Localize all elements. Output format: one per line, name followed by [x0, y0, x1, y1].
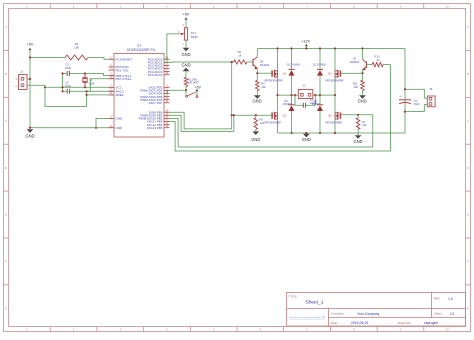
svg-text:C: C	[467, 119, 469, 123]
wire Q4 source to gnd rail	[334, 119, 336, 133]
wire P1 pin14 to control vertical	[170, 112, 232, 129]
title block	[287, 292, 466, 326]
svg-text:PC6 RESET: PC6 RESET	[116, 57, 133, 61]
wire GND rail to U1 pin22	[30, 127, 114, 129]
wire +5V rail to R1	[29, 51, 31, 58]
svg-text:Q3: Q3	[328, 72, 332, 76]
svg-text:D: D	[467, 166, 469, 170]
svg-text:F: F	[467, 260, 469, 264]
svg-text:10k: 10k	[261, 85, 266, 89]
node gnd rail corner	[29, 127, 31, 129]
node AVCC junction	[86, 90, 88, 92]
wire bridge ground rail	[278, 132, 406, 134]
node J1 pin1 junction	[29, 78, 31, 80]
wire C1 right to XTAL1	[69, 73, 85, 75]
wire +12V rail down right side	[404, 49, 406, 134]
node Q1 drain rail	[276, 47, 278, 49]
svg-text:zaprogee: zaprogee	[424, 321, 438, 325]
svg-text:TITLE:: TITLE:	[289, 294, 298, 298]
svg-text:Date:: Date:	[331, 321, 338, 325]
node C4 top	[404, 88, 406, 90]
ground flag R5	[255, 129, 257, 131]
node GND pins join	[95, 127, 97, 129]
ground flag R11	[362, 91, 364, 96]
svg-text:GND: GND	[116, 126, 124, 130]
node Q4 column gnd rail	[334, 132, 336, 134]
svg-text:G: G	[5, 306, 7, 310]
ground flag R7	[357, 129, 359, 135]
svg-text:Sheet_1: Sheet_1	[306, 300, 324, 306]
node motor-left column	[276, 94, 278, 96]
svg-text:2N3904: 2N3904	[260, 63, 270, 67]
svg-text:IRF530NPBF: IRF530NPBF	[265, 120, 282, 124]
svg-text:GND: GND	[354, 139, 363, 144]
svg-text:GND: GND	[358, 99, 367, 104]
wire Q2 source to gnd rail	[277, 119, 279, 133]
wire node to U1 pin6	[164, 90, 186, 93]
node C1 left	[61, 72, 63, 74]
svg-text:GND: GND	[252, 99, 261, 104]
switch SW1	[186, 95, 188, 97]
svg-text:E: E	[467, 213, 469, 217]
node Q7 collector rail	[361, 47, 363, 49]
transistor Q2 IRF530NPBF	[277, 95, 279, 113]
svg-text:Q4: Q4	[328, 114, 332, 118]
node P2 join	[233, 114, 235, 116]
svg-text:2N3904: 2N3904	[350, 60, 360, 64]
node C2 left	[61, 90, 63, 92]
node D2 top	[319, 47, 321, 49]
node +12V entry	[305, 47, 307, 49]
svg-text:10uF: 10uF	[414, 102, 420, 106]
resistor R7 10k	[357, 115, 359, 118]
svg-text:22pF: 22pF	[65, 66, 72, 70]
node C3 right stub	[314, 94, 316, 96]
svg-text:10k: 10k	[354, 85, 359, 89]
svg-text:Q1: Q1	[283, 72, 287, 76]
svg-text:+5V: +5V	[195, 85, 202, 89]
svg-text:REV: REV	[434, 297, 440, 301]
svg-text:10: 10	[446, 4, 450, 8]
wire +5V vertical to GND rail	[29, 58, 31, 128]
wire +5V to P1.1	[185, 20, 187, 28]
node cap rail crossing	[61, 86, 63, 88]
svg-text:GND: GND	[181, 63, 190, 68]
svg-text:F: F	[5, 260, 7, 264]
U1 left pin stubs and names	[109, 58, 115, 60]
capacitor C3 100nF	[295, 95, 303, 105]
svg-text:G: G	[467, 306, 469, 310]
wire U1 pin24 to R6	[164, 61, 234, 63]
node C4 bottom	[404, 111, 406, 113]
wire J1 pin1	[27, 78, 30, 80]
resistor R1 10k	[65, 55, 88, 60]
svg-text:Drawn By:: Drawn By:	[398, 321, 412, 325]
svg-text:22pF: 22pF	[65, 84, 72, 88]
wire P4 pin17 to R10	[170, 65, 391, 151]
wire J3 pin1	[405, 89, 427, 98]
svg-text:GND: GND	[251, 137, 260, 142]
wire C2 leads to XTAL2	[63, 90, 68, 92]
node +5V/J1 junction	[29, 56, 31, 58]
svg-text:J1: J1	[20, 69, 23, 73]
wire AREF stub	[87, 94, 114, 96]
node R7 junction	[357, 114, 359, 116]
node crystal bottom	[84, 86, 86, 88]
wire +12V top rail	[257, 48, 405, 50]
node D3 top	[319, 94, 321, 96]
wire motor left rail	[278, 94, 299, 96]
svg-text:U1: U1	[137, 44, 141, 48]
node R3/switch/pin junction	[185, 89, 187, 91]
svg-text:10k: 10k	[74, 45, 79, 49]
resistor R3_SW1	[184, 77, 188, 86]
wire Q5 collector to +12V rail	[256, 49, 258, 58]
resistor R4 10k	[256, 73, 258, 80]
svg-text:GND: GND	[116, 117, 124, 121]
svg-text:+12V: +12V	[301, 40, 310, 44]
wire R6 to Q5 base	[247, 61, 253, 63]
svg-text:1/1: 1/1	[450, 312, 455, 316]
node C3 left stub	[294, 94, 296, 96]
node V1 gate branch	[231, 114, 233, 116]
svg-text:Q2: Q2	[283, 114, 287, 118]
wire Q3 source to motor rail	[334, 77, 336, 95]
svg-text:10P DPDT: 10P DPDT	[188, 82, 200, 85]
crystal Y1	[84, 74, 86, 78]
svg-text:J2: J2	[303, 84, 306, 88]
node XTAL1	[84, 72, 86, 74]
svg-text:ATMEGA328P-PU: ATMEGA328P-PU	[127, 48, 156, 52]
node motor-right column	[334, 94, 336, 96]
wire P2 pin15 to gate line	[170, 115, 234, 131]
wire Q4 gate line	[340, 114, 372, 116]
ground flag bridge	[303, 134, 310, 138]
resistor R11 10k	[362, 73, 364, 80]
transistor Q1 IRF9530NPBF	[277, 49, 279, 71]
svg-text:R5: R5	[260, 118, 264, 122]
node bridge gnd center	[305, 132, 307, 134]
svg-text:Sheet:: Sheet:	[434, 312, 443, 316]
node V1 top at R6 wire	[231, 61, 233, 63]
svg-text:10: 10	[446, 327, 450, 331]
resistor R5 10k	[255, 115, 257, 118]
transistor Q7 2N3904	[365, 61, 367, 68]
node D4 top	[290, 94, 292, 96]
ground flag J1 side	[27, 129, 34, 133]
wire Q5 emitter node	[256, 68, 258, 73]
wire Q7 emitter node	[362, 70, 364, 73]
svg-text:DIG13 PB5: DIG13 PB5	[147, 126, 163, 130]
svg-text:easyeda.com/zaprogee/h-bridge-: easyeda.com/zaprogee/h-bridge-l298	[289, 316, 326, 319]
svg-text:J3: J3	[429, 87, 432, 91]
wire Q7 base to R10	[366, 64, 372, 66]
wire J1 pin2 to AVCC/AREF net	[27, 85, 87, 106]
node J1 pin2 branch	[44, 86, 46, 88]
svg-text:C4: C4	[414, 99, 418, 103]
wire left gate line	[232, 114, 273, 116]
wire AVCC stub	[87, 90, 114, 92]
potentiometer P1.1 B10K	[184, 28, 187, 40]
node D3 bottom	[319, 132, 321, 134]
wire pot wiper to U1 pin23	[164, 34, 180, 59]
node Q3 drain rail	[334, 47, 336, 49]
wire R1 to U1 pin1	[88, 58, 114, 60]
svg-text:D: D	[5, 166, 7, 170]
svg-text:A: A	[5, 25, 7, 29]
connector J1	[19, 75, 28, 90]
svg-text:C: C	[5, 119, 7, 123]
wire node to switch	[185, 90, 187, 94]
svg-text:D1 1N5400: D1 1N5400	[287, 63, 300, 66]
node R5 junction	[255, 114, 257, 116]
wire pot bottom to ground	[185, 40, 187, 48]
wire Q3 gate line	[340, 72, 362, 74]
resistor R10 1k	[372, 62, 383, 66]
power flag +5V (switch)	[196, 91, 198, 95]
svg-text:+5V: +5V	[27, 42, 34, 46]
wire GND pin8 jog	[96, 118, 114, 127]
node AREF junction	[86, 94, 88, 96]
svg-text:PD1 TXD: PD1 TXD	[116, 68, 130, 72]
svg-text:+: +	[399, 95, 401, 99]
wire R10 to P4 vertical	[383, 64, 390, 66]
svg-text:PC5 ADC5: PC5 ADC5	[148, 73, 163, 77]
svg-text:Your Company: Your Company	[357, 312, 380, 316]
svg-text:10k: 10k	[260, 121, 265, 125]
IC U1 ATMEGA328P-PU body	[114, 54, 164, 138]
svg-text:PB7 XTAL2: PB7 XTAL2	[116, 77, 132, 81]
svg-text:B10K: B10K	[191, 35, 198, 39]
U1 right pin stubs and names	[164, 58, 170, 60]
svg-text:16M: 16M	[89, 82, 95, 86]
transistor Q3 IRF9530NPBF	[334, 49, 336, 71]
node Q5 emitter	[256, 72, 258, 74]
svg-text:E: E	[5, 213, 7, 217]
svg-text:Q7: Q7	[353, 56, 357, 60]
svg-text:A: A	[467, 25, 469, 29]
ground flag R4	[256, 91, 258, 96]
svg-text:AREF: AREF	[116, 93, 124, 97]
svg-text:R11: R11	[353, 82, 358, 86]
node Q7 emitter	[361, 72, 363, 74]
wire motor right rail	[313, 94, 335, 96]
svg-text:IRF9530NPBF: IRF9530NPBF	[265, 79, 283, 83]
wire R3 to node	[185, 86, 187, 90]
transistor Q5 2N3904	[252, 59, 254, 66]
svg-text:Company:: Company:	[331, 312, 344, 316]
svg-text:+5V: +5V	[183, 13, 190, 17]
svg-text:GND: GND	[181, 52, 190, 57]
wire P3 pin16 to right gate line	[170, 115, 373, 147]
svg-text:B: B	[5, 72, 7, 76]
resistor R6 1k	[234, 60, 247, 64]
wire control vertical V1	[231, 62, 233, 129]
wire gnd to R3	[185, 71, 187, 77]
wire Q5 emitter to Q1 gate	[257, 72, 272, 74]
wire C1 left / cap gnd vertical	[63, 73, 68, 75]
node D1 top	[290, 47, 292, 49]
ground flag pot	[183, 48, 190, 52]
wire J3 pin2	[405, 105, 427, 112]
svg-text:GND: GND	[25, 134, 34, 139]
svg-text:GND: GND	[302, 137, 311, 142]
svg-text:IRF530NPBF: IRF530NPBF	[326, 120, 343, 124]
node D4 bottom	[290, 132, 292, 134]
svg-text:1.0: 1.0	[448, 297, 453, 301]
svg-text:2019-05-02: 2019-05-02	[351, 321, 368, 325]
svg-text:10k: 10k	[362, 123, 367, 127]
svg-text:B: B	[467, 72, 469, 76]
svg-text:R7: R7	[362, 120, 366, 124]
svg-text:DIG7 PD7: DIG7 PD7	[149, 101, 163, 105]
wire VCC rail	[45, 86, 114, 88]
wire Q1 source to motor rail	[277, 77, 279, 95]
transistor Q4 IRF530NPBF	[334, 95, 336, 113]
